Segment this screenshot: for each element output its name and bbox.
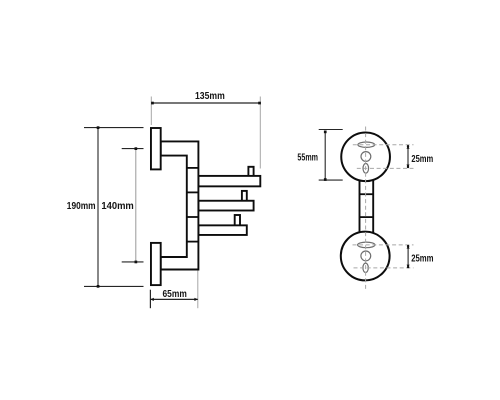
svg-text:190mm: 190mm	[67, 200, 96, 212]
svg-text:25mm: 25mm	[411, 154, 433, 165]
svg-text:55mm: 55mm	[297, 151, 318, 163]
svg-text:140mm: 140mm	[101, 200, 133, 212]
svg-text:65mm: 65mm	[163, 288, 187, 300]
svg-text:25mm: 25mm	[411, 254, 433, 265]
svg-text:135mm: 135mm	[195, 90, 225, 102]
